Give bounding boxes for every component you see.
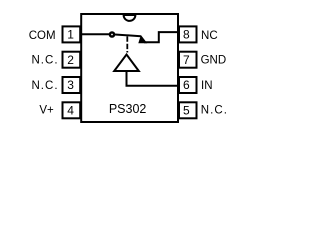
svg-text:IN: IN [201, 80, 213, 92]
pin 2 box [63, 52, 81, 68]
svg-text:6: 6 [183, 78, 190, 92]
svg-text:5: 5 [183, 104, 190, 118]
pin 5 box [179, 102, 197, 118]
svg-text:V+: V+ [39, 105, 54, 117]
svg-text:2: 2 [67, 53, 74, 67]
svg-text:NC: NC [201, 30, 218, 42]
actuation dashed link [126, 36, 128, 52]
index notch at top center [124, 15, 136, 21]
svg-text:3: 3 [67, 78, 74, 92]
pin 8 box [179, 26, 197, 42]
wire triangle to pin 6 (IN) [127, 72, 179, 86]
switch S1 arm arrowhead [138, 35, 147, 43]
pin 1 box [63, 26, 81, 42]
svg-text:N.C.: N.C. [31, 55, 58, 67]
pin 7 box [179, 52, 197, 68]
svg-text:1: 1 [67, 28, 74, 42]
svg-text:GND: GND [201, 55, 227, 67]
switch S1 movable arm [115, 35, 141, 37]
svg-text:N.C.: N.C. [31, 80, 58, 92]
actuator triangle (drive element) [114, 55, 139, 72]
pin 4 box [63, 102, 81, 118]
wire arrowhead to pin 8 [144, 32, 178, 42]
svg-text:PS302: PS302 [109, 102, 147, 116]
svg-text:7: 7 [183, 53, 190, 67]
svg-text:COM: COM [29, 30, 56, 42]
svg-text:8: 8 [183, 28, 190, 42]
svg-text:N.C.: N.C. [201, 105, 228, 117]
IC body U1 (PS302 DIP-8 outline) [81, 14, 178, 122]
pin 6 box [179, 77, 197, 93]
svg-text:4: 4 [67, 104, 74, 118]
switch S1 fixed contact (open circle) [110, 32, 114, 36]
pin 3 box [63, 77, 81, 93]
wire pin1 to fixed contact [81, 33, 110, 35]
